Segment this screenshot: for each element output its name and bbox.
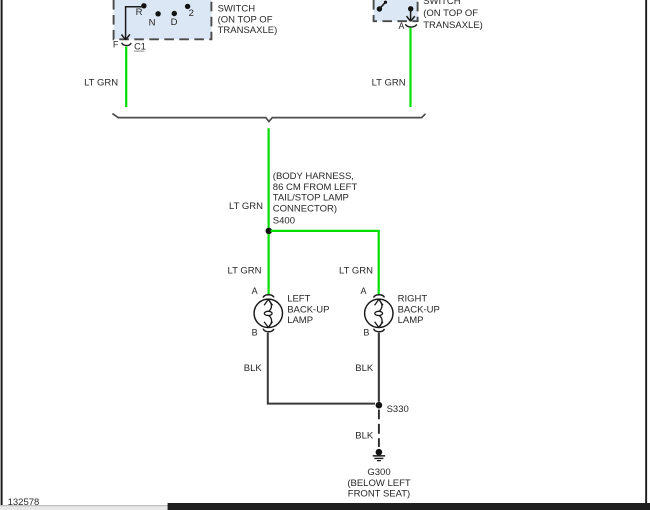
scrollbar thumb — [168, 503, 650, 510]
svg-text:2: 2 — [189, 8, 194, 19]
svg-text:RIGHT: RIGHT — [398, 294, 428, 305]
svg-text:LT GRN: LT GRN — [228, 266, 262, 277]
switch wiper arm to pin F — [121, 7, 143, 40]
svg-text:N: N — [149, 17, 156, 28]
svg-text:BLK: BLK — [355, 430, 374, 441]
splice junction S400 dot — [266, 228, 273, 235]
page right border — [645, 0, 647, 504]
contact dot with pin A arrow (right box) — [407, 6, 415, 21]
svg-text:LT GRN: LT GRN — [84, 77, 118, 88]
svg-text:86 CM FROM LEFT: 86 CM FROM LEFT — [273, 182, 358, 193]
svg-text:S400: S400 — [273, 216, 295, 227]
svg-text:SWITCH: SWITCH — [218, 4, 256, 15]
contact dot R — [141, 3, 146, 8]
svg-text:B: B — [363, 328, 369, 338]
svg-text:F: F — [113, 39, 119, 49]
svg-text:BLK: BLK — [355, 363, 374, 374]
svg-text:LAMP: LAMP — [398, 315, 424, 326]
svg-text:BLK: BLK — [244, 363, 263, 374]
svg-text:FRONT SEAT): FRONT SEAT) — [348, 488, 410, 499]
svg-text:(BELOW LEFT: (BELOW LEFT — [347, 478, 411, 489]
contact dot N — [155, 11, 160, 16]
svg-text:(BODY HARNESS,: (BODY HARNESS, — [273, 171, 354, 182]
svg-text:R: R — [136, 7, 143, 18]
switch lever contact (right box) — [377, 1, 387, 12]
ground G300 symbol — [373, 449, 385, 461]
svg-text:TAIL/STOP LAMP: TAIL/STOP LAMP — [273, 193, 349, 204]
wire LT GRN from right switch (green) — [409, 28, 411, 107]
svg-text:TRANSAXLE): TRANSAXLE) — [218, 25, 278, 36]
wire LT GRN trunk to S400 (green) — [268, 128, 270, 228]
wire green branch to left lamp — [268, 234, 270, 294]
svg-text:A: A — [399, 21, 405, 31]
svg-text:TRANSAXLE): TRANSAXLE) — [423, 20, 483, 31]
svg-text:S330: S330 — [387, 404, 409, 415]
svg-text:LT GRN: LT GRN — [372, 77, 406, 88]
left back-up lamp connector arc (bottom) — [263, 329, 274, 332]
contact dot 2 — [185, 4, 190, 9]
right back-up lamp connector arc (bottom) — [374, 329, 385, 332]
scrollbar track — [0, 505, 650, 510]
svg-text:LT GRN: LT GRN — [339, 266, 373, 277]
svg-text:LT GRN: LT GRN — [229, 201, 263, 212]
wire green branch to right lamp — [271, 231, 379, 294]
splice junction S330 dot — [376, 402, 383, 409]
right lamp caption — [398, 294, 440, 327]
right back-up lamp connector arc (top) — [374, 295, 385, 298]
svg-text:C1: C1 — [134, 41, 146, 51]
brace joining both switch wires — [112, 114, 425, 122]
contact dot D — [172, 11, 177, 16]
svg-text:(ON TOP OF: (ON TOP OF — [218, 14, 273, 25]
svg-text:B: B — [252, 328, 258, 338]
connector cup (right box pin A) — [405, 24, 416, 27]
svg-text:SWITCH: SWITCH — [423, 0, 461, 7]
svg-text:(ON TOP OF: (ON TOP OF — [423, 8, 478, 19]
backup switch box (right) — [374, 0, 418, 21]
wire BLK dashed to ground — [378, 410, 380, 448]
svg-text:132578: 132578 — [8, 497, 40, 508]
svg-text:A: A — [361, 286, 367, 296]
left lamp caption — [287, 294, 329, 327]
svg-text:CONNECTOR): CONNECTOR) — [273, 204, 337, 215]
svg-text:D: D — [171, 17, 178, 28]
page left border — [1, 0, 3, 505]
wire BLK from left lamp — [268, 333, 375, 404]
svg-text:BACK-UP: BACK-UP — [287, 304, 329, 315]
left back-up lamp bulb — [254, 299, 282, 327]
wire BLK from right lamp — [378, 333, 380, 402]
svg-text:A: A — [252, 286, 258, 296]
connector C1 cup symbol — [122, 43, 132, 46]
left back-up lamp connector arc (top) — [263, 295, 274, 298]
right back-up lamp bulb — [365, 299, 393, 327]
backup switch box (left, PNP switch) — [114, 0, 212, 39]
svg-text:G300: G300 — [367, 467, 390, 478]
svg-text:BACK-UP: BACK-UP — [398, 304, 440, 315]
svg-text:LAMP: LAMP — [287, 315, 313, 326]
body harness note S400 — [273, 171, 358, 226]
connector label C1 — [134, 41, 146, 51]
svg-text:LEFT: LEFT — [287, 294, 310, 305]
ground caption G300 — [347, 467, 411, 500]
wire LT GRN from C1 (green) — [125, 47, 127, 108]
